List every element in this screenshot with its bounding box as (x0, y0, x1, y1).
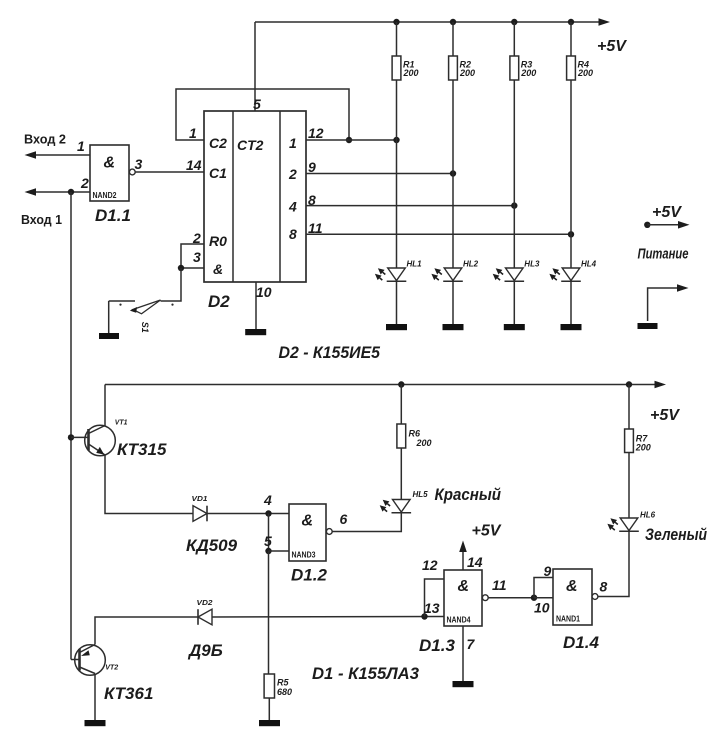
svg-text:680: 680 (277, 687, 292, 697)
wire pin12 loop (425, 579, 445, 617)
svg-text:VT2: VT2 (105, 663, 119, 672)
ground HL2 (443, 324, 464, 330)
node junction R1 top (393, 19, 399, 25)
svg-text:13: 13 (424, 600, 440, 616)
LED HL1 (388, 268, 406, 281)
svg-text:HL4: HL4 (581, 260, 597, 269)
wire output 8 pin11 (306, 233, 571, 235)
svg-text:1: 1 (289, 135, 297, 151)
arrow +5V lower bus (655, 381, 667, 389)
svg-text:+5V: +5V (597, 38, 627, 55)
svg-text:10: 10 (534, 600, 550, 616)
svg-text:КТ315: КТ315 (117, 440, 167, 459)
wire pin10 into D1.4 (534, 597, 553, 599)
svg-text:200: 200 (635, 443, 651, 453)
node junction pin13 (421, 613, 427, 619)
svg-text:9: 9 (308, 159, 316, 175)
diode VD1 KD509 (193, 506, 207, 522)
wire +5V to R3 (513, 22, 515, 56)
arrow input Vhod2 (25, 151, 37, 159)
svg-text:VD1: VD1 (192, 494, 208, 503)
svg-text:8: 8 (600, 579, 608, 595)
svg-text:11: 11 (492, 577, 507, 593)
svg-text:8: 8 (289, 226, 297, 242)
svg-text:7: 7 (467, 636, 476, 652)
op-amp gate D1.4 NAND body (553, 569, 592, 625)
svg-text:14: 14 (467, 554, 483, 570)
wire input 1 Vhod2 (36, 154, 90, 156)
svg-text:D2 - К155ИЕ5: D2 - К155ИЕ5 (279, 343, 381, 362)
wire pin5 power vertical (254, 22, 256, 111)
wire D1.4 out to HL6 (598, 532, 629, 597)
svg-text:D1.2: D1.2 (291, 566, 327, 585)
wire output 2 pin9 (306, 173, 453, 175)
svg-text:Вход 1: Вход 1 (21, 212, 62, 227)
svg-text:C1: C1 (209, 165, 227, 181)
switch S1 left contact wire (109, 300, 135, 302)
wire HL4 to ground (570, 281, 572, 324)
svg-text:HL3: HL3 (524, 260, 540, 269)
svg-text:200: 200 (403, 68, 419, 78)
arrow pin14 +5V (459, 541, 467, 553)
node junction pin12 R1 (393, 137, 399, 143)
ground S1 (99, 333, 119, 339)
wire HL1 to ground (396, 281, 398, 324)
svg-text:HL1: HL1 (407, 260, 423, 269)
wire VT1 emitter down (105, 455, 193, 514)
inverter bubble D1.1 output (129, 169, 135, 175)
wire VT2 collector to ground (94, 674, 96, 721)
svg-text:&: & (302, 513, 314, 530)
inverter bubble D1.2 output (326, 529, 332, 535)
svg-text:S1: S1 (140, 322, 150, 333)
wire pin14 power (462, 551, 464, 570)
wire pin9 loop (534, 578, 553, 598)
svg-text:+5V: +5V (472, 523, 502, 540)
svg-text:Вход 2: Вход 2 (24, 132, 66, 147)
svg-text:2: 2 (288, 166, 297, 182)
arrow power +5V (678, 221, 690, 229)
svg-text:&: & (213, 261, 223, 277)
svg-text:1: 1 (77, 138, 85, 154)
counter D2 K155IE5 body (204, 111, 306, 282)
wire VD1 to node 4 (207, 513, 289, 515)
node junction R4 top (568, 19, 574, 25)
wire node5 to R5 (268, 551, 270, 674)
node junction VT1 base (68, 434, 74, 440)
svg-text:VD2: VD2 (197, 598, 214, 607)
svg-text:HL6: HL6 (640, 511, 656, 520)
LED HL6 (620, 518, 638, 531)
ground HL4 (561, 324, 582, 330)
ground power (638, 323, 658, 329)
wire output 1 pin12 (306, 139, 397, 141)
ground HL3 (504, 324, 525, 330)
svg-text:+5V: +5V (652, 204, 682, 221)
node junction pin12 loop (346, 137, 352, 143)
svg-text:CT2: CT2 (237, 137, 264, 153)
resistor R3 200 (510, 56, 519, 80)
resistor R4 200 (567, 56, 576, 80)
wire +5V top bus (255, 21, 599, 23)
resistor R6 200 (397, 424, 406, 448)
svg-text:NAND2: NAND2 (93, 191, 117, 200)
resistor R2 200 (449, 56, 458, 80)
svg-text:6: 6 (340, 511, 348, 527)
svg-text:12: 12 (308, 125, 324, 141)
LED HL5 (393, 500, 411, 513)
wire HL3 to ground (513, 281, 515, 324)
arrow power ground lead (677, 284, 689, 292)
arrow input Vhod1 (25, 188, 37, 196)
wire +5V lower bus (105, 384, 655, 386)
svg-text:NAND1: NAND1 (556, 615, 580, 624)
inverter bubble D1.3 output (482, 595, 488, 601)
svg-text:4: 4 (288, 199, 297, 215)
wire S1 to ground (108, 301, 110, 333)
wire +5V to R1 (396, 22, 398, 56)
node junction R6 bus (398, 381, 404, 387)
svg-text:D2: D2 (208, 292, 230, 311)
op-amp gate D1.2 NAND body (289, 504, 326, 561)
svg-text:NAND3: NAND3 (292, 551, 316, 560)
svg-text:КД509: КД509 (186, 536, 238, 555)
svg-text:200: 200 (459, 68, 475, 78)
transistor VT2 KT361 (75, 645, 106, 676)
wire R2 to HL2 (452, 80, 454, 268)
LED HL4 (562, 268, 580, 281)
svg-text:3: 3 (135, 156, 143, 172)
switch S1 blade (133, 300, 161, 314)
svg-text:HL2: HL2 (463, 260, 479, 269)
svg-text:VT1: VT1 (115, 418, 128, 427)
ground VT2 (85, 720, 106, 726)
wire bus to R6 (400, 385, 402, 425)
svg-text:2: 2 (80, 175, 89, 191)
wire input 2 Vhod1 (36, 191, 90, 193)
node junction R3 top (511, 19, 517, 25)
wire Vhod1 vertical rail (70, 192, 72, 660)
wire output 4 pin8 (306, 205, 514, 207)
svg-text:4: 4 (263, 492, 272, 508)
wire R6 to HL5 (400, 448, 402, 500)
node 5 junction (265, 548, 271, 554)
node junction R2 top (450, 19, 456, 25)
svg-text:D1.3: D1.3 (419, 636, 455, 655)
svg-text:5: 5 (253, 96, 261, 112)
wire D1.2 out to HL5 (332, 513, 401, 532)
node junction pin8 R3 (511, 202, 517, 208)
transistor VT1 KT315 (85, 425, 116, 456)
wire node4 to node5 (268, 514, 270, 552)
node junction D1.4 inputs (531, 595, 537, 601)
wire R5 to ground (268, 698, 270, 720)
svg-text:&: & (104, 155, 116, 172)
svg-text:200: 200 (520, 68, 536, 78)
svg-text:200: 200 (416, 438, 432, 448)
power +5V top arrow (599, 18, 611, 26)
wire +5V to R4 (570, 22, 572, 56)
LED HL3 (506, 268, 524, 281)
svg-text:Красный: Красный (435, 485, 502, 504)
svg-text:10: 10 (256, 284, 272, 300)
svg-text:R0: R0 (209, 233, 227, 249)
ground R5 (259, 720, 280, 726)
resistor R5 680 (264, 674, 274, 698)
svg-text:Питание: Питание (638, 246, 689, 263)
inverter bubble D1.4 output (592, 594, 598, 600)
node power dot (644, 222, 650, 228)
wire power +5V lead (647, 224, 679, 226)
op-amp gate D1.1 NAND body (90, 145, 129, 201)
wire D1.3 out to D1.4 (488, 597, 534, 599)
wire pin 10 to ground (255, 282, 257, 329)
svg-text:D1.4: D1.4 (563, 633, 599, 652)
svg-text:3: 3 (193, 249, 201, 265)
wire power ground lead (648, 288, 678, 321)
wire R1 to HL1 (396, 80, 398, 268)
wire HL2 to ground (452, 281, 454, 324)
svg-text:D1 - К155ЛА3: D1 - К155ЛА3 (312, 664, 420, 683)
svg-text:D1.1: D1.1 (95, 206, 131, 225)
node junction pin9 R2 (450, 170, 456, 176)
wire VT1 collector to bus (104, 385, 106, 426)
wire D1.1 out to C1 (135, 171, 204, 173)
wire R4 to HL4 (570, 80, 572, 268)
wire R0 pin2 (181, 244, 204, 268)
wire +5V to R2 (452, 22, 454, 56)
ground HL1 (386, 324, 407, 330)
svg-text:NAND4: NAND4 (447, 616, 471, 625)
node junction pin11 R4 (568, 231, 574, 237)
ground D1.3 pin7 (453, 681, 474, 687)
svg-text:R5: R5 (277, 678, 289, 688)
node junction R0 pins (178, 265, 184, 271)
wire pin5 into D1.2 (269, 550, 290, 552)
svg-text:Д9Б: Д9Б (187, 641, 223, 660)
wire R7 to HL6 (628, 453, 630, 519)
svg-text:C2: C2 (209, 135, 227, 151)
LED HL2 (444, 268, 462, 281)
op-amp gate D1.3 NAND body (444, 570, 482, 626)
svg-text:&: & (566, 578, 578, 595)
svg-text:200: 200 (577, 68, 593, 78)
svg-text:КТ361: КТ361 (104, 684, 153, 703)
resistor R1 200 (392, 56, 401, 80)
ground D2 pin10 (245, 329, 266, 335)
svg-text:R6: R6 (409, 429, 421, 439)
svg-text:HL5: HL5 (413, 490, 429, 499)
svg-text:5: 5 (264, 533, 272, 549)
svg-text:1: 1 (189, 125, 197, 141)
resistor R7 200 (625, 429, 634, 453)
wire R3 to HL3 (513, 80, 515, 268)
wire VT2 emitter up to VD2 line (95, 617, 198, 645)
node junction Vhod1 (68, 189, 74, 195)
wire S1 from R0 node (161, 268, 182, 301)
wire bus to R7 (628, 385, 630, 430)
svg-text:12: 12 (422, 557, 438, 573)
diode VD2 D9B (198, 609, 212, 625)
svg-text:Зеленый: Зеленый (645, 525, 708, 544)
node 4 junction (265, 510, 271, 516)
wire pin7 ground (462, 626, 464, 681)
wire feedback loop pin12 to C2 (176, 89, 349, 140)
svg-text:+5V: +5V (650, 407, 680, 424)
wire VD2 to D1.3 pin13 (212, 616, 444, 619)
svg-text:&: & (458, 578, 470, 595)
wire R0 pin3 (181, 267, 204, 269)
svg-text:9: 9 (544, 563, 552, 579)
svg-text:14: 14 (186, 157, 202, 173)
node junction R7 bus (626, 381, 632, 387)
